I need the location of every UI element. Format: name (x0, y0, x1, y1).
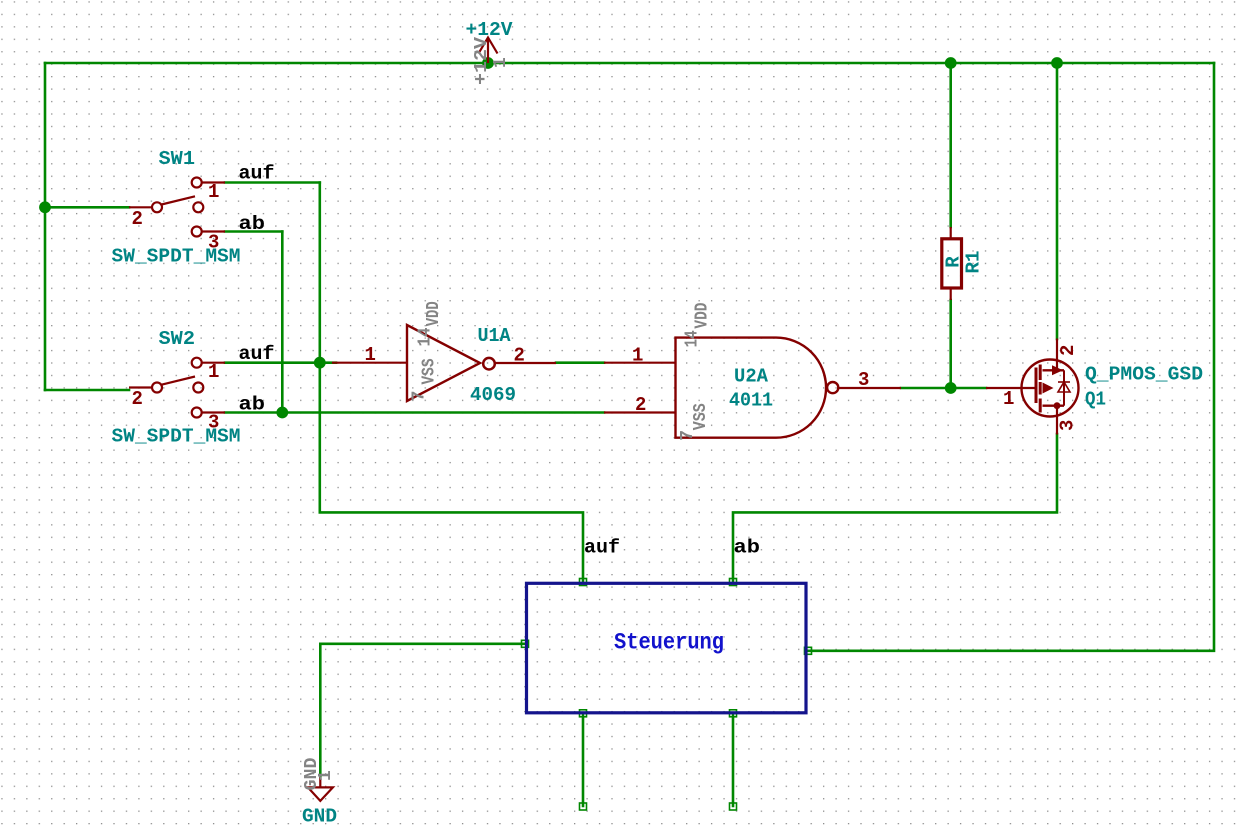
resistor R1 body (942, 227, 962, 300)
svg-text:ab: ab (734, 537, 761, 559)
wire Steuerung bottom stub auf (582, 715, 585, 807)
wire SW1 pin2 to left bus (45, 206, 129, 209)
svg-text:SW2: SW2 (159, 328, 196, 350)
wire Steuerung right pin to right bus (808, 63, 1214, 651)
svg-text:auf: auf (239, 343, 275, 365)
junction auf node at SW2 pin1 (314, 357, 326, 369)
gate U2A nand body (604, 338, 901, 438)
wire left vertical bus (44, 63, 47, 390)
svg-text:ab: ab (239, 394, 266, 416)
node auf sheet pin square (580, 579, 587, 586)
node left sheet pin square (522, 640, 529, 647)
svg-text:R: R (943, 256, 965, 268)
node ab sheet pin square (730, 579, 737, 586)
wire Steuerung bottom stub ab (732, 715, 735, 807)
node bottom stub 1 square top (580, 710, 587, 717)
svg-text:Q_PMOS_GSD: Q_PMOS_GSD (1085, 364, 1203, 386)
power +12V arrow (479, 38, 498, 64)
svg-text:VSS: VSS (691, 403, 711, 430)
switch SW2 body (129, 358, 225, 418)
wire SW2 pin3 to NAND pin2 (225, 411, 604, 414)
svg-text:VSS: VSS (420, 358, 440, 384)
wire SW2 pin1 to inverter input (225, 361, 336, 364)
svg-text:auf: auf (584, 537, 620, 559)
svg-text:SW_SPDT_MSM: SW_SPDT_MSM (112, 426, 241, 448)
svg-text:1: 1 (208, 181, 219, 203)
svg-text:Q1: Q1 (1085, 389, 1106, 411)
svg-text:2: 2 (132, 388, 143, 410)
svg-text:14: 14 (416, 327, 436, 346)
svg-text:2: 2 (514, 345, 525, 367)
svg-text:4011: 4011 (729, 390, 773, 412)
junction SW1 pin2 left bus (39, 201, 51, 213)
svg-text:SW1: SW1 (159, 148, 196, 170)
svg-text:1: 1 (1003, 388, 1014, 410)
svg-text:+12V: +12V (472, 37, 492, 85)
svg-text:U1A: U1A (478, 325, 512, 347)
transistor Q1 arrows (1043, 365, 1064, 409)
wire ab vertical (281, 232, 284, 413)
junction +12V rail (482, 57, 494, 69)
junction Q1 top rail (1051, 57, 1063, 69)
svg-text:Steuerung: Steuerung (614, 630, 724, 657)
svg-text:14: 14 (683, 330, 703, 347)
svg-text:3: 3 (1057, 420, 1079, 431)
node bottom stub 2 square end (730, 803, 737, 810)
wire Steuerung left pin to GND (320, 644, 525, 777)
sheet box Steuerung (527, 583, 807, 713)
switch SW1 body (129, 178, 225, 237)
wire U1A output to U2A pin1 (556, 361, 604, 364)
svg-text:auf: auf (239, 163, 275, 185)
wire SW1 pin3 ab horizontal (225, 230, 282, 233)
wire R1 bottom branch (949, 300, 952, 388)
svg-text:3: 3 (208, 232, 219, 254)
wire R1 top branch (949, 63, 952, 227)
svg-text:4069: 4069 (470, 384, 516, 406)
node bottom stub 1 square end (580, 803, 587, 810)
wire SW1 pin1 auf horizontal (225, 181, 320, 184)
op-amp U1A triangle (332, 325, 556, 401)
wire auf vertical down to Steuerung (320, 183, 583, 582)
svg-text:7: 7 (678, 430, 698, 441)
junction ab node at SW2 pin3 (276, 407, 288, 419)
svg-text:3: 3 (208, 412, 219, 434)
svg-text:GND: GND (302, 806, 337, 827)
ground symbol (308, 777, 333, 801)
svg-text:ab: ab (239, 213, 266, 235)
svg-text:SW_SPDT_MSM: SW_SPDT_MSM (112, 246, 241, 268)
node right sheet pin square (805, 647, 812, 654)
svg-text:1: 1 (316, 770, 336, 781)
svg-text:U2A: U2A (734, 366, 769, 388)
wire top power rail (45, 62, 1214, 65)
svg-text:2: 2 (635, 394, 646, 416)
junction R1 bottom / NAND out (945, 382, 957, 394)
svg-text:1: 1 (208, 361, 219, 383)
node bottom stub 2 square top (730, 710, 737, 717)
wire SW2 pin2 to left bus corner (45, 389, 129, 392)
svg-text:1: 1 (491, 57, 511, 68)
svg-text:1: 1 (365, 344, 376, 366)
svg-text:R1: R1 (963, 251, 985, 274)
transistor Q1 body (986, 339, 1079, 435)
svg-text:3: 3 (858, 369, 869, 391)
svg-text:VDD: VDD (693, 302, 713, 328)
junction R1 top rail (945, 57, 957, 69)
svg-text:7: 7 (410, 391, 430, 402)
svg-text:2: 2 (132, 208, 143, 230)
svg-text:1: 1 (632, 345, 643, 367)
wire U2A output to Q1 gate (901, 387, 986, 390)
svg-text:VDD: VDD (424, 301, 444, 326)
wire Q1 source down to ab net (733, 434, 1057, 581)
svg-text:2: 2 (1057, 345, 1079, 356)
wire Q1 drain top branch (1056, 63, 1059, 339)
